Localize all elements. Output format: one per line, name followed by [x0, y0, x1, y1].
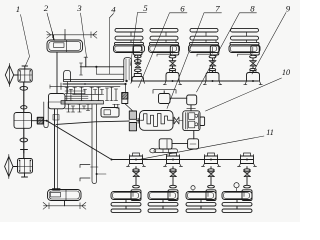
gearbox second shaft [63, 83, 126, 85]
leader line 10 [206, 78, 282, 111]
shaft hydro down to pump boxes [193, 131, 195, 139]
shaft with couplings below G1 [23, 82, 25, 113]
drop coupling to engine line [125, 84, 127, 93]
gearbox top link line [84, 56, 88, 58]
svg-text:9: 9 [286, 4, 291, 14]
engine (crankshaft symbol) [140, 111, 174, 131]
leader line 11 [140, 136, 264, 159]
wheel station T4 [229, 28, 262, 84]
vertical tube under gearbox [92, 105, 97, 184]
steered wheels drop shaft [54, 109, 56, 189]
wheel station T1 riser column [124, 58, 132, 81]
propeller P2 (lower) [5, 157, 13, 177]
front-right steered wheel W0 with tie rod [47, 29, 97, 52]
wheel station B4 [222, 153, 257, 212]
wheel W0 drop shaft [56, 52, 58, 94]
coupling squares (universal joint) at gearbox output [129, 111, 136, 119]
svg-text:5: 5 [143, 3, 148, 13]
PTO flat shaft below P1 [154, 149, 178, 153]
svg-text:1: 1 [16, 4, 20, 14]
leader line 6 [139, 13, 188, 88]
propeller transfer box TB [14, 113, 32, 129]
svg-text:8: 8 [250, 4, 255, 14]
propeller gearbox G1 [14, 74, 18, 76]
hanging J-tube [44, 102, 48, 128]
wheel station T1 stack [114, 28, 145, 55]
pump box P2 [188, 139, 199, 149]
wheel station B3 [186, 153, 221, 212]
brake drum B4 [234, 183, 239, 188]
leader line 4 [109, 14, 113, 75]
leader line 3 [81, 13, 87, 57]
leader line 5 [131, 12, 147, 65]
front-left steered wheel W0b with tie rod [43, 190, 86, 210]
gear pairs upper zone [65, 87, 69, 100]
leader line 1 [21, 15, 30, 66]
gear pairs lower zone [67, 104, 71, 112]
hydro unit side tab [200, 117, 205, 126]
svg-text:2: 2 [44, 3, 49, 13]
leader line 2 [47, 13, 55, 41]
diagonal drive shaft to rear axle [47, 121, 112, 160]
svg-text:11: 11 [266, 128, 274, 137]
wheel station B2 [148, 153, 183, 212]
leader line 8 [197, 13, 257, 92]
wheel station T3 [189, 28, 222, 84]
wheel station T2 [149, 28, 182, 84]
rear (lower) side shaft [112, 159, 254, 161]
svg-text:4: 4 [111, 5, 116, 15]
brake drum B3 [191, 186, 195, 190]
gearbox lower shaft [65, 108, 92, 110]
svg-text:7: 7 [215, 4, 220, 14]
hydromechanical unit [183, 111, 200, 131]
gearbox third shaft [65, 90, 85, 92]
propeller gearbox G2 (lower) [18, 159, 33, 174]
gearbox output line to engine [56, 121, 129, 124]
PTO box B [187, 95, 197, 105]
link B to hydro unit [190, 105, 192, 111]
svg-text:3: 3 [76, 3, 82, 13]
axle housing double line [64, 78, 124, 80]
wheel station B1 [111, 153, 146, 212]
leader line 9 [252, 13, 286, 75]
arm-to-clutchbox vertical [67, 82, 69, 94]
flexible coupling (bowtie) [174, 117, 179, 124]
propeller P1 (upper) [5, 66, 13, 85]
pump box P1 [159, 139, 172, 149]
PTO gearbox A above engine [159, 94, 171, 104]
gearbox clutch drum box [49, 94, 66, 109]
shaft TB to main gearbox [32, 120, 47, 122]
shaft below TB to lower propeller [23, 128, 25, 158]
front (upper) side shaft [131, 80, 258, 82]
gearbox sump box [101, 108, 119, 118]
wheel station T1 jointed shaft [131, 55, 145, 83]
leader line 7 [167, 13, 222, 109]
tube bracket [80, 165, 90, 182]
svg-text:10: 10 [282, 68, 290, 77]
svg-text:6: 6 [180, 4, 185, 14]
gearbox upper housing: left arm [64, 70, 71, 81]
